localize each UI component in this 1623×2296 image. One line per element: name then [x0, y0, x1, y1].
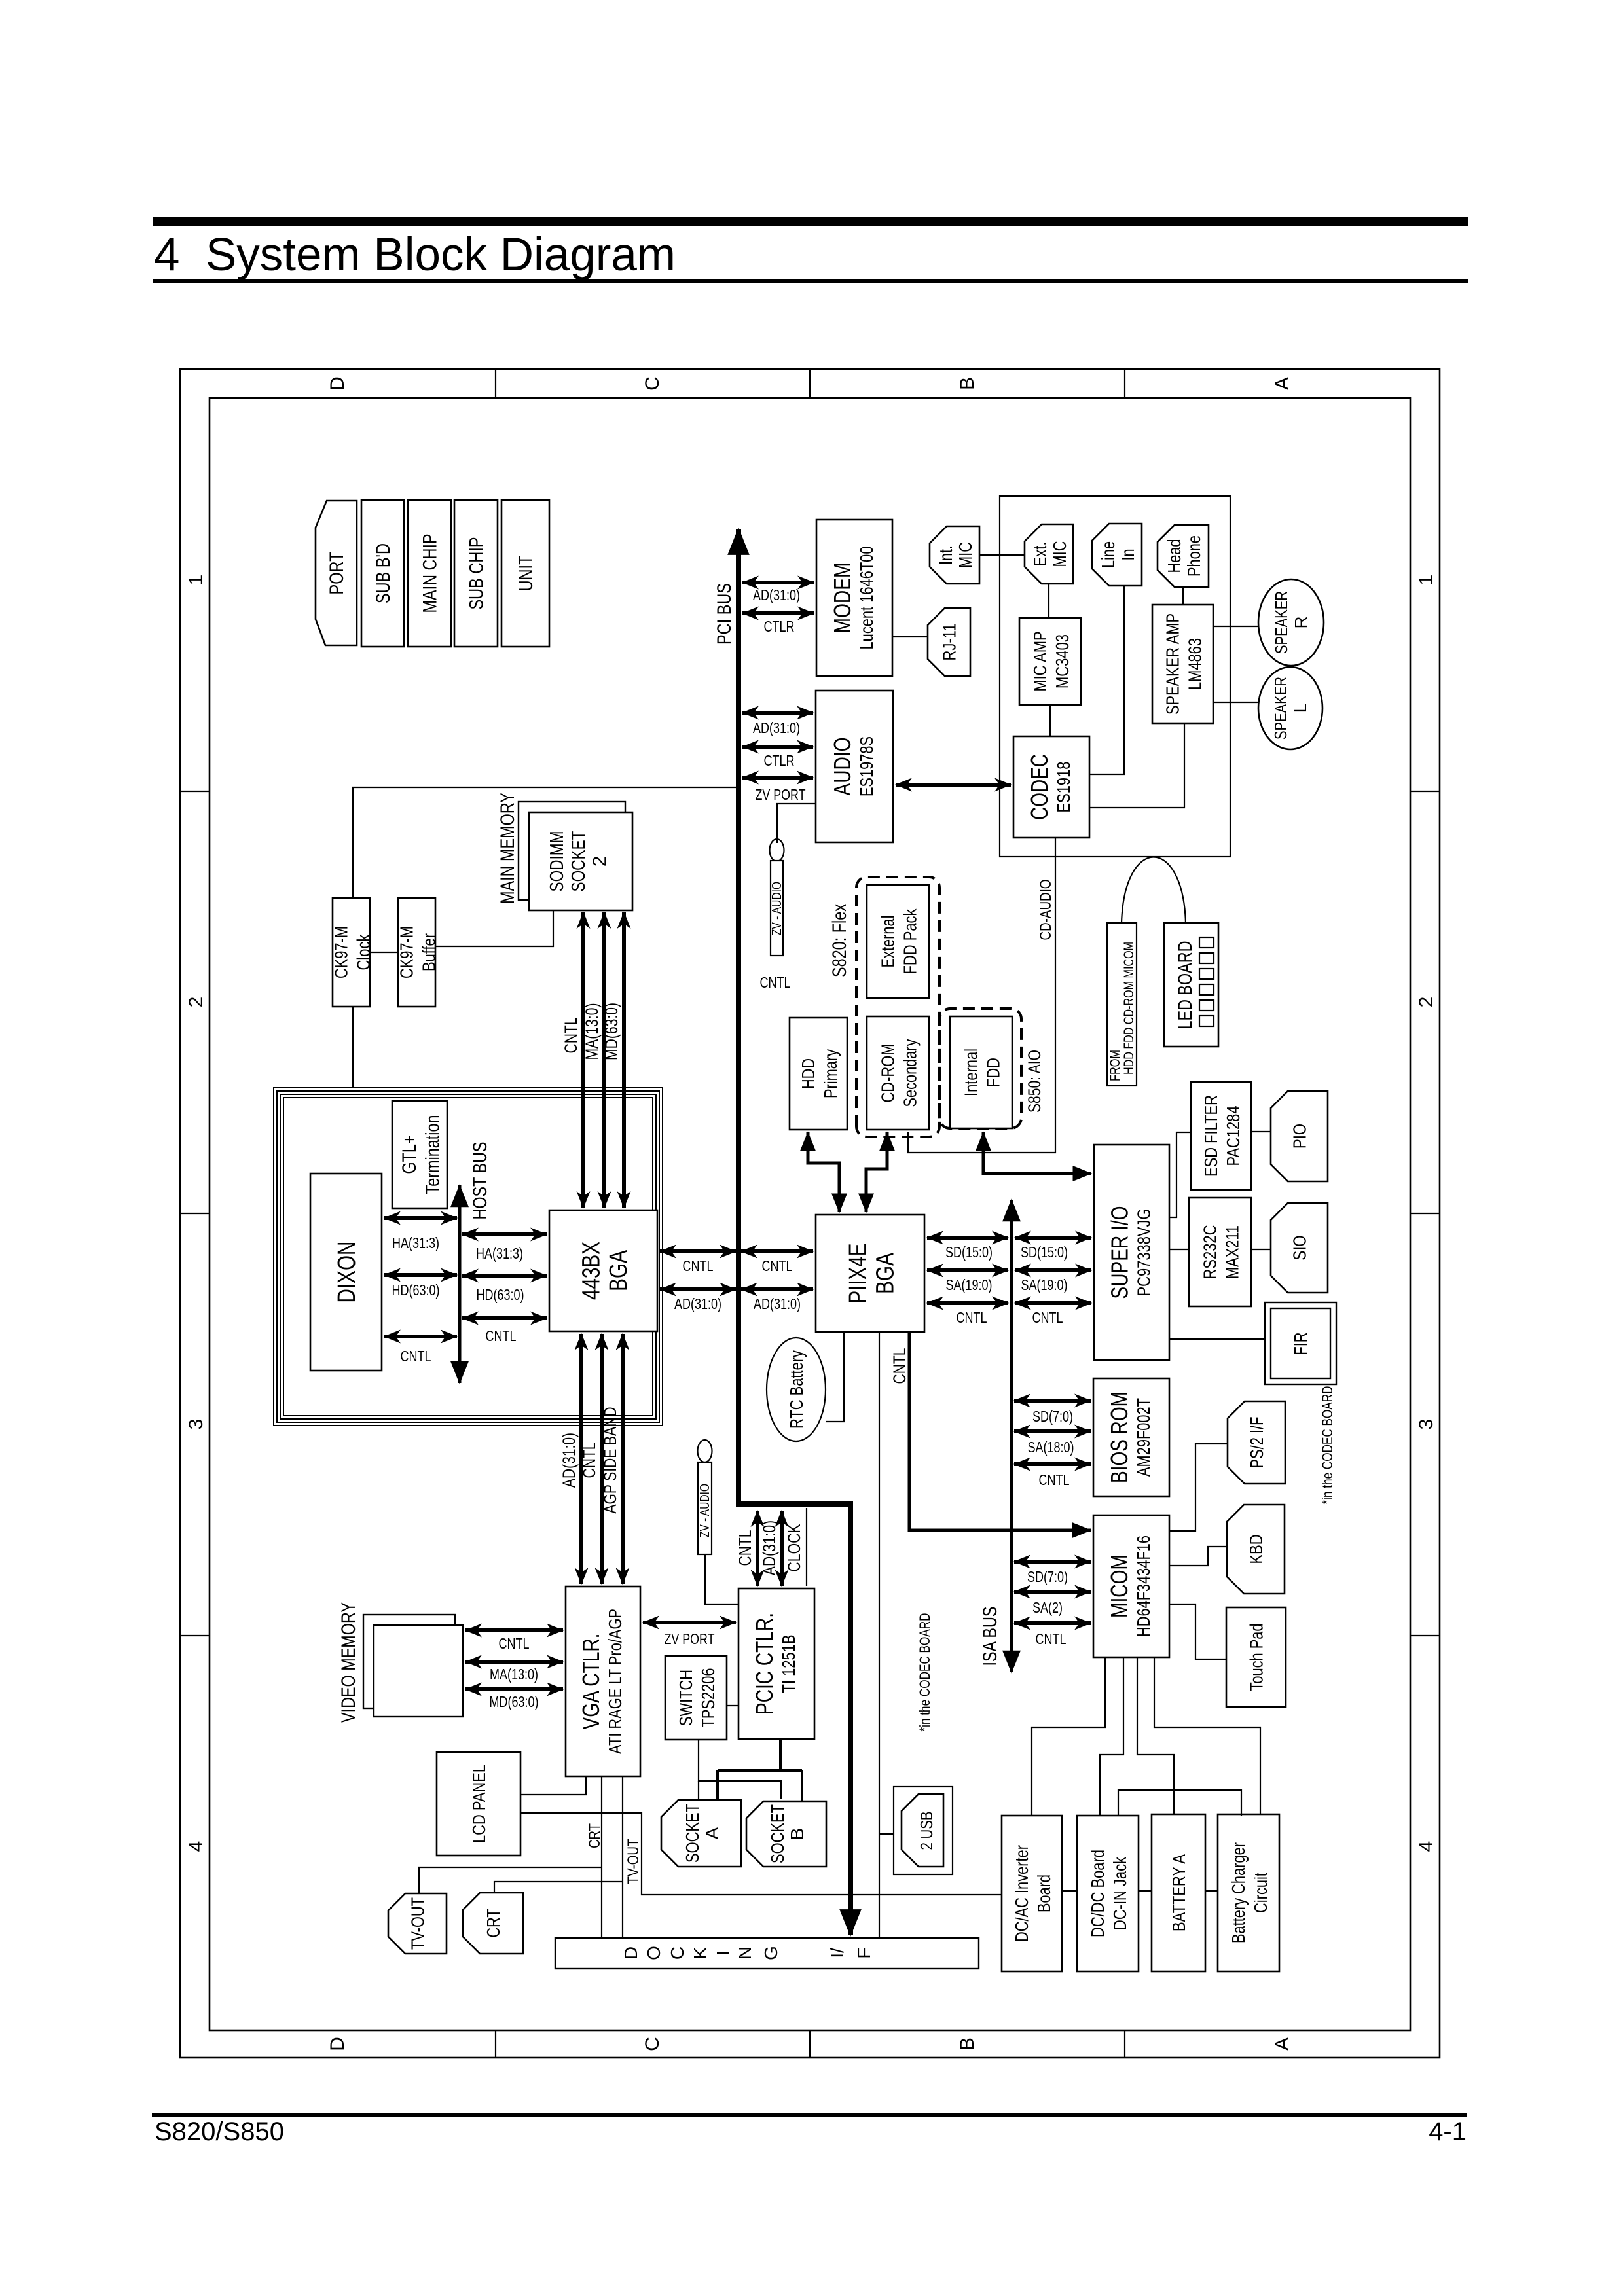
svg-text:I: I [713, 1950, 733, 1956]
wire micom to kbd [1169, 1547, 1227, 1566]
footer rule [152, 2113, 1467, 2117]
wire vga to lcd [520, 1776, 586, 1795]
group S850 AIO dashed outline [939, 1009, 1021, 1128]
bus arrow 443BX HD(63:0) [462, 1274, 547, 1278]
wire superio to fir [1169, 1338, 1265, 1340]
svg-text:CNTL: CNTL [1039, 1471, 1070, 1488]
svg-text:MICOM: MICOM [1106, 1554, 1133, 1618]
svg-text:CNTL: CNTL [683, 1257, 714, 1274]
wire branch to tv-out connector [419, 1867, 602, 1893]
svg-text:TV-OUT: TV-OUT [625, 1839, 642, 1884]
svg-text:CNTL: CNTL [401, 1348, 431, 1365]
bus arrow AGP CNTL [600, 1334, 604, 1584]
svg-text:AM29F002T: AM29F002T [1133, 1398, 1154, 1477]
wire audio to zv-audio upper [777, 804, 816, 843]
box FROM HDD FDD CD-ROM MICOM [1107, 923, 1137, 1086]
unit External FDD Pack [867, 885, 929, 998]
svg-text:1: 1 [1415, 575, 1437, 586]
bus arrow 443BX HA(31:3) [462, 1232, 547, 1236]
svg-text:Battery Charger: Battery Charger [1228, 1842, 1249, 1943]
wire CD-AUDIO [908, 838, 1055, 1153]
wire pcic CLOCK [806, 1508, 807, 1586]
chip MICOM HD64F3434F16 [1093, 1515, 1169, 1657]
svg-text:D: D [621, 1946, 641, 1960]
box FIR double border [1265, 1302, 1336, 1384]
wire buffer to SODIMM [435, 910, 553, 946]
unit LCD PANEL [437, 1752, 520, 1856]
svg-text:AUDIO: AUDIO [829, 738, 856, 796]
svg-text:ZV PORT: ZV PORT [756, 786, 806, 803]
svg-text:KBD: KBD [1246, 1535, 1266, 1564]
svg-text:ESD FILTER: ESD FILTER [1201, 1095, 1221, 1177]
svg-text:Internal: Internal [961, 1049, 981, 1096]
svg-text:LCD PANEL: LCD PANEL [469, 1765, 489, 1843]
svg-text:DC/AC Inverter: DC/AC Inverter [1012, 1845, 1032, 1942]
bus arrow pcic AD(31:0) [780, 1511, 784, 1586]
svg-text:MIC AMP: MIC AMP [1030, 632, 1050, 692]
chip CK97-M Clock [331, 898, 374, 1007]
svg-text:RTC Battery: RTC Battery [786, 1350, 807, 1429]
svg-text:B: B [957, 2037, 978, 2051]
svg-text:1: 1 [185, 575, 207, 586]
bus arrow bios CNTL [1014, 1462, 1091, 1466]
connector SOCKET B [746, 1801, 826, 1867]
wire clock to CPU module [352, 1007, 354, 1088]
chip VGA CTLR ATI RAGE LT Pro/AGP [566, 1587, 640, 1776]
wire switch to sockets [699, 1740, 781, 1799]
svg-text:DC-IN Jack: DC-IN Jack [1110, 1856, 1130, 1930]
wire mic amp to codec [1049, 705, 1051, 736]
wire usb stub [879, 1833, 902, 1835]
svg-text:FDD: FDD [983, 1058, 1003, 1087]
connector PIO [1271, 1091, 1328, 1181]
chip BIOS ROM AM29F002T [1093, 1378, 1169, 1496]
svg-text:CTLR: CTLR [764, 618, 795, 635]
wire sockets trunk tee [718, 1769, 802, 1772]
svg-text:ES1918: ES1918 [1053, 762, 1074, 813]
svg-text:C: C [642, 2037, 663, 2051]
svg-text:BGA: BGA [872, 1252, 900, 1294]
wire zv-audio lower to pcic [705, 1554, 739, 1604]
bus arrow memory MD(63:0) [622, 912, 626, 1208]
bus arrow modem CTLR [742, 611, 814, 615]
svg-text:A: A [1271, 377, 1293, 390]
title bar thick rule [153, 217, 1468, 226]
svg-text:SOCKET: SOCKET [767, 1804, 788, 1863]
bus arrow video CNTL [465, 1628, 563, 1632]
wire clock to buffer [370, 952, 398, 953]
wire micom to dcdc board [1100, 1657, 1123, 1816]
svg-text:SPEAKER AMP: SPEAKER AMP [1163, 613, 1183, 715]
bus arrow audio ZV PORT [742, 776, 813, 780]
svg-text:DIXON: DIXON [333, 1242, 361, 1303]
chip SPEAKER AMP LM4863 [1152, 605, 1213, 723]
connector KBD [1227, 1505, 1285, 1594]
svg-text:SUPER I/O: SUPER I/O [1106, 1206, 1133, 1299]
svg-text:CK97-M: CK97-M [331, 926, 352, 978]
svg-text:G: G [761, 1946, 781, 1960]
wire vga tv line [601, 1776, 602, 1938]
svg-text:HD(63:0): HD(63:0) [392, 1282, 440, 1299]
wire micom to dcac inverter [1032, 1657, 1105, 1816]
svg-text:CNTL: CNTL [1036, 1630, 1067, 1647]
svg-text:K: K [690, 1946, 710, 1959]
legend MAIN CHIP symbol [408, 500, 451, 647]
svg-text:CK97-M: CK97-M [397, 926, 417, 978]
svg-text:CNTL: CNTL [1032, 1309, 1063, 1326]
bus arrow memory MA(13:0) [602, 912, 606, 1208]
svg-text:2: 2 [589, 856, 610, 867]
svg-text:S820/S850: S820/S850 [155, 2117, 284, 2146]
svg-text:Secondary: Secondary [900, 1039, 920, 1107]
svg-text:B: B [957, 377, 978, 390]
svg-text:MC3403: MC3403 [1052, 634, 1072, 689]
svg-text:SOCKET: SOCKET [682, 1804, 702, 1863]
wire dcac dcdc link [1062, 1890, 1077, 1892]
svg-text:BATTERY A: BATTERY A [1169, 1854, 1189, 1931]
bus arrow audio CTLR [742, 745, 813, 749]
bus arrow DIXON CNTL [384, 1335, 457, 1338]
wire Internal FDD to SUPER IO [983, 1132, 1091, 1174]
wire superio to esd filter [1169, 1132, 1191, 1217]
svg-text:AGP SIDE BAND: AGP SIDE BAND [600, 1407, 620, 1514]
svg-text:CNTL: CNTL [760, 974, 791, 991]
svg-text:I/: I/ [827, 1948, 847, 1958]
wire speaker amp to speaker R [1213, 626, 1258, 627]
svg-text:BIOS ROM: BIOS ROM [1106, 1391, 1133, 1483]
svg-text:PORT: PORT [326, 552, 348, 595]
svg-text:HOST BUS: HOST BUS [469, 1142, 491, 1220]
svg-text:PCI BUS: PCI BUS [714, 583, 735, 645]
connector RJ-11 [928, 608, 970, 676]
svg-text:Buffer: Buffer [418, 933, 439, 971]
chip 443BX BGA [549, 1210, 657, 1331]
svg-text:HDD FDD CD-ROM MICOM: HDD FDD CD-ROM MICOM [1122, 942, 1137, 1075]
svg-text:N: N [735, 1946, 755, 1960]
chip CK97-M Buffer [397, 898, 439, 1007]
bus arrow DIXON HA(31:3) [384, 1216, 457, 1220]
svg-text:SOCKET: SOCKET [568, 831, 589, 891]
svg-text:Board: Board [1034, 1874, 1054, 1912]
svg-text:CLOCK: CLOCK [784, 1524, 804, 1572]
bus arrow 443BX CNTL [462, 1316, 547, 1320]
chip PIIX4E BGA [816, 1215, 924, 1332]
frame column numbers bottom [1415, 575, 1437, 1852]
svg-text:SA(19:0): SA(19:0) [1021, 1276, 1068, 1293]
wire esd filter to pio [1251, 1131, 1271, 1132]
svg-text:CNTL: CNTL [561, 1018, 581, 1054]
svg-text:SWITCH: SWITCH [676, 1670, 696, 1726]
svg-text:S820: Flex: S820: Flex [829, 904, 850, 977]
wire clock to PCI bus [353, 787, 736, 898]
svg-text:MD(63:0): MD(63:0) [602, 1003, 621, 1060]
chip RS232C MAX211 [1189, 1198, 1251, 1306]
bus arrow AGP AD(31:0) [579, 1334, 583, 1584]
chip AUDIO ES1978S [816, 691, 893, 842]
connector SOCKET A [661, 1800, 741, 1867]
svg-text:CNTL: CNTL [499, 1635, 530, 1652]
svg-text:SA(18:0): SA(18:0) [1028, 1439, 1074, 1456]
title thin rule [153, 279, 1468, 283]
svg-text:PAC1284: PAC1284 [1223, 1106, 1243, 1166]
svg-text:3: 3 [185, 1419, 207, 1430]
frame row letters right [327, 376, 1293, 391]
chip MIC AMP MC3403 [1019, 618, 1081, 705]
legend SUB B'D symbol [361, 500, 404, 647]
svg-text:AD(31:0): AD(31:0) [753, 586, 800, 603]
wire branch to crt connector [494, 1882, 623, 1893]
box GTL+ Termination [392, 1101, 447, 1208]
bus arrow micom SD(7:0) [1014, 1560, 1091, 1564]
svg-text:PS/2 I/F: PS/2 I/F [1247, 1417, 1267, 1469]
CPU module nested border [274, 1088, 663, 1426]
bus arrow video MD(63:0) [465, 1687, 563, 1691]
svg-text:MIC: MIC [955, 542, 976, 568]
chip MODEM Lucent 1646T00 [816, 520, 892, 676]
frame column dividers bottom band [1410, 791, 1440, 1636]
wire PIIX4E to CD-ROM [866, 1132, 887, 1212]
chip PCIC CTLR TI 1251B [739, 1588, 814, 1739]
wire int mic to ext mic [979, 554, 1025, 556]
frame column dividers top band [180, 791, 210, 1636]
svg-text:4 System Block Diagram: 4 System Block Diagram [154, 229, 676, 281]
svg-text:Head: Head [1164, 539, 1184, 573]
connector PS/2 I/F [1228, 1401, 1285, 1484]
svg-text:BGA: BGA [605, 1249, 632, 1291]
bus arrow AGP SIDE BAND [621, 1334, 625, 1584]
svg-text:CNTL: CNTL [486, 1327, 517, 1344]
svg-text:MODEM: MODEM [829, 563, 856, 634]
unit RTC Battery [767, 1338, 826, 1441]
chip DIXON [310, 1174, 382, 1371]
bus arrow PCI to PIIX AD(31:0) [741, 1287, 813, 1291]
connector Line In [1092, 524, 1142, 586]
svg-text:MAIN CHIP: MAIN CHIP [420, 534, 441, 613]
chip SUPER I/O PC97338VJG [1094, 1145, 1169, 1360]
connector 2 USB [894, 1787, 953, 1874]
svg-text:R: R [1291, 617, 1311, 629]
connector Ext. MIC [1025, 524, 1073, 584]
drawing frame outer border [180, 369, 1440, 2058]
svg-text:RS232C: RS232C [1200, 1225, 1220, 1280]
bus arrow superio SA(19:0) [1015, 1268, 1091, 1272]
svg-text:2: 2 [1415, 997, 1437, 1008]
svg-text:2 USB: 2 USB [917, 1812, 936, 1850]
frame column numbers top [185, 575, 207, 1852]
svg-text:L: L [1290, 704, 1310, 713]
svg-text:PCIC CTLR.: PCIC CTLR. [751, 1613, 778, 1715]
bus arrow piix SA(19:0) [927, 1268, 1008, 1272]
bus arrow video MA(13:0) [465, 1660, 563, 1664]
wire rs232c to sio [1251, 1249, 1271, 1250]
bus arrow audio AD(31:0) [742, 711, 813, 715]
svg-text:SA(19:0): SA(19:0) [946, 1276, 993, 1293]
svg-text:CNTL: CNTL [579, 1443, 599, 1479]
svg-text:MAIN MEMORY: MAIN MEMORY [497, 793, 519, 904]
svg-text:CNTL: CNTL [890, 1348, 909, 1384]
svg-text:4-1: 4-1 [1429, 2117, 1467, 2146]
svg-text:ATI RAGE LT Pro/AGP: ATI RAGE LT Pro/AGP [605, 1609, 625, 1754]
svg-text:Primary: Primary [820, 1049, 841, 1098]
bus arrow micom SA(2) [1014, 1590, 1091, 1594]
svg-text:PC97338VJG: PC97338VJG [1133, 1209, 1154, 1297]
bus arrow superio SD(15:0) [1015, 1236, 1091, 1240]
bus arrow bios SA(18:0) [1014, 1429, 1091, 1433]
bus arrow modem AD(31:0) [742, 581, 814, 584]
svg-text:A: A [702, 1827, 722, 1839]
group S820 Flex dashed outline [856, 877, 939, 1137]
svg-text:AD(31:0): AD(31:0) [559, 1433, 579, 1488]
bus arrow 443BX to PCI AD(31:0) [660, 1287, 736, 1291]
svg-text:In: In [1118, 549, 1138, 561]
svg-text:HA(31:3): HA(31:3) [476, 1245, 523, 1262]
bus arrow pcic CNTL [756, 1511, 759, 1586]
svg-text:4: 4 [185, 1841, 207, 1852]
svg-text:A: A [1271, 2037, 1293, 2051]
wire switch branch socket A [698, 1781, 699, 1799]
chip CODEC ES1918 [1013, 736, 1089, 838]
svg-text:SPEAKER: SPEAKER [1271, 677, 1290, 740]
wire battery charger link [1205, 1890, 1218, 1892]
svg-text:SA(2): SA(2) [1032, 1599, 1063, 1616]
svg-text:AD(31:0): AD(31:0) [674, 1295, 721, 1312]
svg-text:CTLR: CTLR [764, 752, 795, 769]
bus ISA BUS line [1010, 1200, 1013, 1672]
svg-text:CRT: CRT [586, 1823, 604, 1848]
svg-text:4: 4 [1415, 1841, 1437, 1852]
svg-text:SODIMM: SODIMM [547, 831, 568, 892]
svg-text:SD(15:0): SD(15:0) [945, 1244, 993, 1261]
bus arrow 443BX to PCI CNTL [660, 1249, 736, 1253]
chip ESD FILTER PAC1284 [1191, 1082, 1251, 1190]
svg-text:MD(63:0): MD(63:0) [490, 1693, 539, 1710]
wire dcdc to charger link [1118, 1790, 1241, 1816]
svg-text:DC/DC Board: DC/DC Board [1087, 1850, 1108, 1937]
wire codec to speaker amp [1089, 723, 1184, 808]
svg-text:MA(13:0): MA(13:0) [582, 1003, 602, 1060]
svg-text:CNTL: CNTL [735, 1530, 755, 1566]
bus arrow AUDIO to CODEC [896, 783, 1011, 787]
wire pcic to sockets trunk [779, 1739, 782, 1770]
svg-text:MAX211: MAX211 [1222, 1225, 1242, 1279]
svg-text:ZV - AUDIO: ZV - AUDIO [770, 882, 784, 935]
svg-text:RJ-11: RJ-11 [939, 624, 959, 661]
box SODIMM SOCKET 2 [529, 812, 632, 910]
svg-text:Phone: Phone [1184, 535, 1204, 577]
svg-text:VIDEO MEMORY: VIDEO MEMORY [338, 1602, 359, 1723]
svg-text:443BX: 443BX [578, 1242, 606, 1300]
bus arrow piix SD(15:0) [927, 1236, 1008, 1240]
unit SPEAKER R [1258, 579, 1324, 666]
svg-text:AD(31:0): AD(31:0) [754, 1295, 801, 1312]
svg-text:HDD: HDD [798, 1058, 818, 1089]
bus arrow superio CNTL [1015, 1301, 1091, 1305]
bus arrow piix CNTL isa [927, 1301, 1008, 1305]
bus arrow DIXON HD(63:0) [384, 1273, 457, 1277]
wire PIIX4E to MICOM [909, 1332, 1091, 1530]
svg-text:LM4863: LM4863 [1184, 638, 1205, 690]
wire superio to rs232c [1169, 1249, 1189, 1250]
svg-text:LED BOARD: LED BOARD [1175, 941, 1196, 1030]
connector Int. MIC [930, 526, 979, 584]
wire micom to charger [1154, 1657, 1260, 1814]
svg-text:SD(7:0): SD(7:0) [1032, 1408, 1073, 1425]
box video memory back card [363, 1615, 455, 1708]
legend PORT symbol [316, 501, 357, 645]
connector ZV-AUDIO cable lower [698, 1440, 713, 1554]
unit BATTERY A [1152, 1814, 1205, 1971]
legend SUB CHIP symbol [454, 500, 498, 647]
wire head phone to speaker amp [1182, 587, 1184, 605]
connector CRT [463, 1893, 523, 1954]
wire switch to pcic [727, 1705, 739, 1706]
svg-text:External: External [878, 916, 898, 968]
wire micom to battery [1137, 1657, 1174, 1814]
svg-text:SD(15:0): SD(15:0) [1021, 1244, 1068, 1261]
bus arrow bios SD(7:0) [1014, 1399, 1091, 1403]
wire lcd to dcac inverter [520, 1813, 1002, 1895]
unit Internal FDD [950, 1016, 1012, 1128]
wire dcdc battery link [1139, 1890, 1152, 1892]
svg-text:HD(63:0): HD(63:0) [477, 1286, 524, 1303]
frame row letters left [327, 2037, 1293, 2051]
svg-text:VGA CTLR.: VGA CTLR. [577, 1634, 604, 1730]
svg-text:GTL+: GTL+ [399, 1136, 420, 1174]
connector SIO [1271, 1203, 1328, 1293]
svg-text:CODEC: CODEC [1026, 754, 1053, 820]
connector ZV-AUDIO cable upper [770, 839, 785, 956]
svg-text:Termination: Termination [422, 1115, 443, 1194]
bus arrow ZV PORT vga pcic [643, 1621, 736, 1624]
svg-text:Ext.: Ext. [1030, 542, 1050, 567]
svg-text:PIO: PIO [1289, 1124, 1309, 1149]
connector TV-OUT [388, 1893, 447, 1954]
svg-text:3: 3 [1415, 1419, 1437, 1430]
svg-text:Circuit: Circuit [1250, 1873, 1271, 1913]
svg-text:CNTL: CNTL [957, 1309, 987, 1326]
svg-text:D: D [327, 376, 348, 391]
svg-text:C: C [667, 1946, 687, 1960]
unit SPEAKER L [1258, 667, 1322, 749]
unit Battery Charger Circuit [1218, 1814, 1279, 1971]
svg-text:Line: Line [1098, 541, 1118, 568]
unit DC/AC Inverter Board [1002, 1816, 1062, 1971]
svg-text:Int.: Int. [936, 545, 956, 565]
svg-text:HD64F3434F16: HD64F3434F16 [1133, 1535, 1154, 1637]
svg-text:FROM: FROM [1108, 1050, 1123, 1081]
svg-text:SUB CHIP: SUB CHIP [466, 537, 488, 610]
svg-text:ES1978S: ES1978S [856, 736, 877, 797]
svg-text:ISA BUS: ISA BUS [979, 1607, 1001, 1666]
unit CD-ROM Secondary [867, 1016, 929, 1130]
wire codec to line in [1089, 586, 1124, 774]
svg-text:*in the CODEC BOARD: *in the CODEC BOARD [917, 1613, 933, 1732]
svg-text:CNTL: CNTL [762, 1257, 793, 1274]
legend UNIT symbol [501, 500, 549, 647]
wire PIIX4E to HDD [808, 1132, 839, 1212]
svg-text:SUB B'D: SUB B'D [373, 543, 394, 603]
wire micom to touch pad [1169, 1604, 1226, 1659]
svg-text:2: 2 [185, 997, 207, 1008]
chip SWITCH TPS2206 [665, 1656, 727, 1740]
svg-text:SD(7:0): SD(7:0) [1027, 1568, 1068, 1585]
svg-text:AD(31:0): AD(31:0) [759, 1520, 779, 1575]
svg-text:Touch Pad: Touch Pad [1246, 1624, 1266, 1691]
svg-text:FIR: FIR [1290, 1333, 1311, 1355]
wire micom to ps2 [1169, 1444, 1228, 1531]
svg-text:*in the CODEC BOARD: *in the CODEC BOARD [1319, 1386, 1336, 1505]
wire ext mic to mic amp [1048, 584, 1049, 618]
